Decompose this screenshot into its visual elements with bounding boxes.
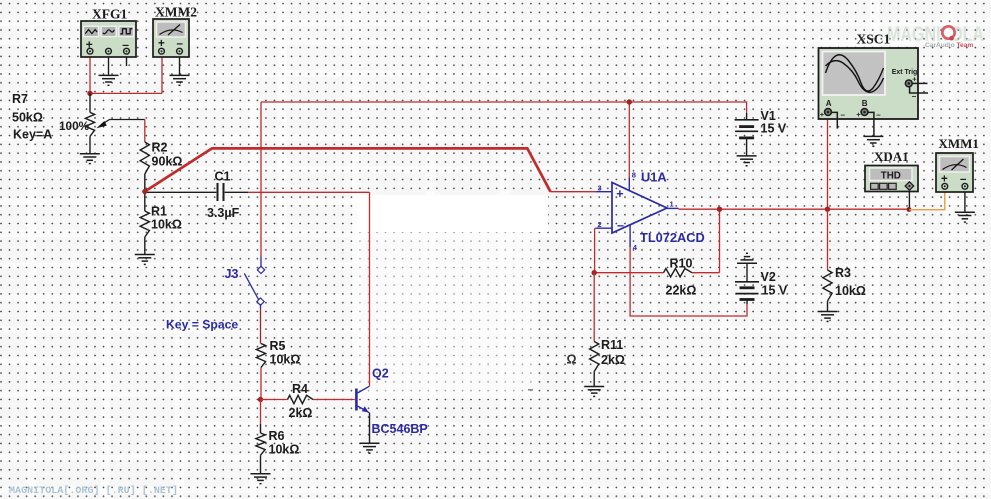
svg-text:R7: R7 — [12, 92, 28, 106]
wire op-amp pin4 to V2 minus — [630, 247, 747, 316]
svg-text:J3: J3 — [225, 267, 239, 281]
XSC1 terminal B — [861, 109, 868, 116]
XSC1 B minus stub — [868, 112, 874, 136]
wire R10 right lead — [692, 272, 720, 274]
svg-text:THD: THD — [881, 170, 901, 181]
XSC1 ext trig minus — [912, 92, 917, 101]
svg-text:100%: 100% — [59, 119, 90, 133]
XSC1 terminal A — [825, 109, 832, 116]
ground XSC1 B — [863, 136, 883, 146]
wire node A to potentiometer R7 — [89, 93, 91, 112]
svg-text:+: + — [616, 187, 623, 201]
wire R7 wiper horizontal — [110, 119, 145, 121]
label R7 value — [12, 111, 43, 125]
label R1 value — [151, 218, 182, 232]
label R4 — [292, 382, 308, 396]
label V2 — [761, 270, 776, 284]
wire output to XMM1 plus (orange) — [909, 189, 945, 210]
svg-text:TL072ACD: TL072ACD — [640, 230, 705, 245]
XMM2 plus sign — [158, 38, 165, 50]
wire R4 right to Q2 base — [313, 399, 355, 401]
wire bus to op-amp pin3 — [551, 191, 597, 193]
label R1 — [151, 205, 167, 219]
svg-text:R3: R3 — [835, 266, 851, 280]
svg-text:2kΩ: 2kΩ — [289, 406, 313, 420]
label XMM1 — [939, 136, 979, 151]
wire node E down to R11 — [593, 273, 595, 342]
svg-text:2kΩ: 2kΩ — [601, 353, 625, 367]
wire Q2 emitter to ground — [369, 413, 371, 444]
label V2 value — [762, 284, 788, 298]
op-amp pin4 stub — [629, 225, 631, 248]
label J3 — [225, 267, 239, 281]
resistor R6 — [256, 433, 265, 455]
op-amp pin4 number — [633, 243, 638, 252]
op-amp pin3 number — [598, 184, 602, 193]
multimeter XMM2 body — [153, 19, 189, 57]
ground R3 — [818, 312, 838, 322]
XSC1 channel A label — [826, 99, 832, 108]
svg-text:XSC1: XSC1 — [857, 32, 891, 47]
XSC1 A minus stub — [831, 112, 837, 128]
op-amp pin1 number — [670, 200, 674, 209]
XFG1 minus sign — [122, 37, 129, 51]
label C1 — [215, 170, 231, 184]
resistor R11 — [590, 342, 599, 372]
wire V2 bottom black lead — [746, 300, 748, 305]
svg-text:R2: R2 — [152, 141, 168, 155]
svg-text:3: 3 — [598, 184, 602, 193]
wire V2 ground stem — [746, 263, 748, 282]
wire XFG1 common to ground — [108, 54, 110, 76]
label TL072ACD — [640, 230, 705, 245]
wire rail down to switch J3 — [260, 102, 262, 257]
svg-text:B: B — [862, 99, 868, 108]
XMM2 screen — [157, 22, 186, 37]
svg-text:10kΩ: 10kΩ — [151, 218, 182, 232]
XDA1 button 2 — [880, 183, 888, 189]
multimeter XMM1 body — [936, 153, 973, 192]
XMM1 screen — [940, 157, 970, 173]
op-amp output stub — [667, 207, 679, 209]
svg-text:10kΩ: 10kΩ — [270, 353, 301, 367]
wire V1 bottom to ground — [746, 138, 748, 156]
svg-text:90kΩ: 90kΩ — [152, 155, 183, 169]
node D junction at output — [717, 207, 722, 212]
XDA1 button 3 — [889, 183, 897, 189]
label R7 percent — [59, 119, 90, 133]
wire R10 left lead to node E — [594, 272, 663, 274]
function generator XFG1 body — [81, 21, 136, 57]
label R5 value — [270, 353, 301, 367]
switch J3 — [244, 257, 264, 308]
label XDA1 — [874, 149, 909, 164]
label R11 — [601, 338, 623, 352]
svg-text:XDA1: XDA1 — [874, 149, 909, 164]
svg-text:15 V: 15 V — [762, 284, 788, 298]
wire node B to R1 top — [144, 192, 146, 212]
ground V2 plus (inverted) — [737, 253, 757, 263]
battery V1 — [735, 120, 759, 138]
op-amp pin2 stub — [595, 227, 612, 229]
svg-text:CarAudio Team: CarAudio Team — [925, 42, 973, 49]
resistor R5 — [256, 344, 265, 368]
wire R1 bottom to ground — [144, 237, 146, 255]
XFG1 plus sign — [86, 37, 93, 51]
svg-text:+: + — [820, 110, 825, 119]
XMM2 terminal minus — [177, 48, 183, 54]
svg-text:2: 2 — [598, 220, 602, 229]
watermark logo ring — [942, 26, 954, 40]
svg-text:XFG1: XFG1 — [92, 7, 127, 22]
XSC1 A minus — [841, 110, 846, 119]
svg-text:+: + — [856, 110, 861, 119]
XFG1 terminal minus — [124, 48, 130, 54]
wire XFG1 minus stub — [126, 54, 128, 66]
XMM1 minus sign — [960, 173, 967, 185]
svg-text:–: – — [912, 92, 917, 101]
wire XMM2 minus to ground — [179, 54, 181, 76]
wire R5 bottom to node H — [260, 368, 262, 400]
wire C1 to Q2 collector (horizontal red) — [248, 191, 370, 193]
op-amp U1A triangle — [612, 183, 667, 234]
label V1 value — [761, 122, 787, 136]
wire down to Q2 collector (red) — [369, 192, 371, 386]
label J3 key — [166, 318, 238, 332]
ground R6 — [251, 474, 271, 484]
XFG1 square button — [119, 26, 134, 36]
svg-text:10kΩ: 10kΩ — [269, 443, 300, 457]
wire XFG1 plus to node A — [89, 54, 91, 94]
node E junction — [592, 270, 597, 275]
XSC1 ext trig terminal — [905, 80, 912, 87]
wire J3 bottom to R5 (dark red) — [260, 308, 262, 344]
node G junction XDA1/output — [907, 207, 912, 212]
potentiometer R7 wiper arrow — [96, 120, 109, 129]
wire R2 bottom to node B — [144, 174, 146, 192]
label R6 — [269, 429, 285, 443]
XSC1 B plus — [856, 110, 861, 119]
svg-text:Key=A: Key=A — [13, 128, 52, 142]
resistor R3 — [823, 270, 832, 301]
wire node H to R6 top — [260, 400, 262, 425]
svg-text:R10: R10 — [670, 257, 693, 271]
svg-text:50kΩ: 50kΩ — [12, 111, 43, 125]
wire node F down to R3 — [827, 209, 829, 270]
stray dash artifact — [528, 389, 533, 391]
svg-text:MAGNITOLA[.ORG] [.RU] [.NET]: MAGNITOLA[.ORG] [.RU] [.NET] — [9, 485, 178, 497]
label C1 value — [207, 206, 240, 220]
wire output down to R10 (feedback) — [719, 209, 721, 273]
wire op-amp output line — [679, 208, 910, 210]
XFG1 terminal plus — [87, 48, 93, 54]
wire XMM1 minus to ground — [964, 189, 966, 212]
svg-text:–: – — [617, 218, 624, 232]
label XSC1 — [857, 32, 891, 47]
XSC1 channel B label — [862, 99, 868, 108]
label R10 value — [666, 284, 697, 298]
wire node A to XMM2 plus (horizontal) — [90, 92, 162, 94]
svg-text:Q2: Q2 — [372, 367, 389, 381]
XMM1 plus sign — [941, 173, 948, 185]
label Q2 — [372, 367, 389, 381]
XSC1 screen — [823, 52, 886, 96]
XMM1 terminal minus — [962, 183, 968, 189]
wire +15V rail (top horizontal) — [261, 102, 747, 113]
label R7 key — [13, 128, 52, 142]
label R3 value — [835, 284, 866, 298]
label R2 — [152, 141, 168, 155]
svg-text:XMM1: XMM1 — [939, 136, 979, 151]
XDA1 output terminal — [905, 182, 913, 190]
label R11 value — [601, 353, 625, 367]
svg-text:R4: R4 — [292, 382, 308, 396]
XFG1 terminal common — [106, 48, 112, 54]
capacitor C1 — [218, 183, 224, 201]
thick red feedback bus node B to op-amp input — [145, 148, 551, 191]
label R7 — [12, 92, 28, 106]
ground R11 — [584, 387, 604, 397]
svg-text:V2: V2 — [761, 270, 776, 284]
XSC1 ext trig label — [892, 67, 918, 76]
wire C1 right black lead — [225, 191, 248, 193]
svg-text:R1: R1 — [151, 205, 167, 219]
op-amp pin8 number — [632, 171, 636, 180]
svg-text:+: + — [912, 75, 917, 84]
node A junction — [87, 91, 92, 96]
ground Q2 emitter — [360, 443, 380, 453]
svg-text:Key = Space: Key = Space — [166, 318, 238, 332]
op-amp pin8 stub — [628, 178, 630, 192]
resistor R2 — [140, 142, 149, 174]
svg-text:R6: R6 — [269, 429, 285, 443]
svg-text:Ω: Ω — [567, 353, 577, 367]
node F junction at output/R3 — [825, 207, 830, 212]
watermark bottom-left site text — [9, 485, 178, 497]
battery V2 — [735, 282, 759, 300]
washed watermark area center — [373, 232, 538, 399]
label R3 — [835, 266, 851, 280]
wire R7 bottom to ground — [89, 136, 91, 153]
wire up to XMM2 plus — [161, 54, 163, 94]
label Q2 part — [372, 422, 428, 436]
wire node B to C1 left — [146, 191, 216, 193]
wire R11 bottom to ground — [593, 372, 595, 387]
XDA1 button 1 — [871, 183, 879, 189]
watermark magnitola ghost title — [887, 23, 984, 46]
svg-text:R5: R5 — [270, 339, 286, 353]
ground R1 — [135, 255, 155, 265]
svg-text:R11: R11 — [601, 338, 623, 352]
svg-text:BC546BP: BC546BP — [372, 422, 428, 436]
op-amp pin3 stub — [597, 191, 613, 193]
wire R7 wiper to R2 top (red) — [144, 120, 146, 143]
wire op-amp pin2 down to node E — [594, 228, 596, 273]
label XMM2 — [155, 5, 197, 20]
label V1 — [761, 109, 776, 123]
XMM2 terminal plus — [159, 48, 165, 54]
resistor R4 — [288, 395, 314, 403]
wire scope channel A down to output node — [827, 115, 829, 209]
ground XMM1 minus — [955, 212, 975, 222]
ground R7 — [80, 154, 100, 164]
wire R6 bottom to ground — [260, 455, 262, 474]
svg-text:XMM2: XMM2 — [155, 5, 197, 20]
label R4 value — [289, 406, 313, 420]
label R10 — [670, 257, 693, 271]
label R2 value — [152, 155, 183, 169]
svg-text:–: – — [876, 110, 881, 119]
ground V1 — [737, 156, 757, 166]
label U1A — [641, 170, 667, 185]
svg-text:8: 8 — [632, 171, 636, 180]
svg-text:C1: C1 — [215, 170, 231, 184]
XSC1 A plus — [820, 110, 825, 119]
stray ohm glyph — [567, 353, 577, 367]
op-amp pin2 number — [598, 220, 602, 229]
potentiometer R7 zigzag — [85, 112, 94, 136]
wire rail to op-amp pin8 (red) — [628, 102, 630, 178]
svg-text:4: 4 — [633, 243, 638, 252]
svg-text:U1A: U1A — [641, 170, 667, 185]
svg-text:3.3µF: 3.3µF — [207, 206, 240, 220]
XFG1 sine button — [84, 26, 99, 36]
svg-text:1: 1 — [670, 200, 674, 209]
node H junction R5/R6/R4 — [258, 397, 263, 402]
distortion analyzer XDA1 body — [865, 166, 918, 192]
wire into R6 (black) — [260, 424, 262, 433]
label R6 value — [269, 443, 300, 457]
ground XMM2 minus — [170, 75, 190, 85]
svg-text:10kΩ: 10kΩ — [835, 284, 866, 298]
XSC1 ext trig stub — [912, 82, 927, 84]
svg-text:–: – — [841, 110, 846, 119]
XMM1 terminal plus — [942, 183, 948, 189]
XFG1 triangle button — [101, 26, 116, 36]
oscilloscope XSC1 body — [819, 48, 919, 119]
wire XDA1 terminal down to output node — [908, 189, 910, 209]
XDA1 display — [870, 168, 913, 181]
resistor R1 — [140, 211, 149, 237]
resistor R10 — [664, 269, 693, 277]
wire R3 bottom to ground — [827, 301, 829, 312]
svg-text:22kΩ: 22kΩ — [666, 284, 697, 298]
XMM2 minus sign — [177, 38, 184, 50]
wire node H to R4 left — [261, 399, 288, 401]
XSC1 B minus — [876, 110, 881, 119]
label R5 — [270, 339, 286, 353]
watermark caraudio team — [925, 42, 973, 49]
svg-text:A: A — [826, 99, 832, 108]
XSC1 ext trig plus — [912, 75, 917, 84]
wire V1 top lead — [746, 113, 748, 120]
XSC1 ext trig minus stub — [910, 87, 928, 93]
svg-text:15 V: 15 V — [761, 122, 787, 136]
transistor Q2 — [356, 386, 369, 413]
washed watermark left column — [358, 232, 373, 399]
node C junction on +15V rail — [627, 99, 632, 104]
washed watermark area top band — [358, 195, 548, 232]
ground XFG1 common — [99, 75, 119, 85]
label XFG1 — [92, 7, 127, 22]
node B junction — [142, 189, 147, 194]
